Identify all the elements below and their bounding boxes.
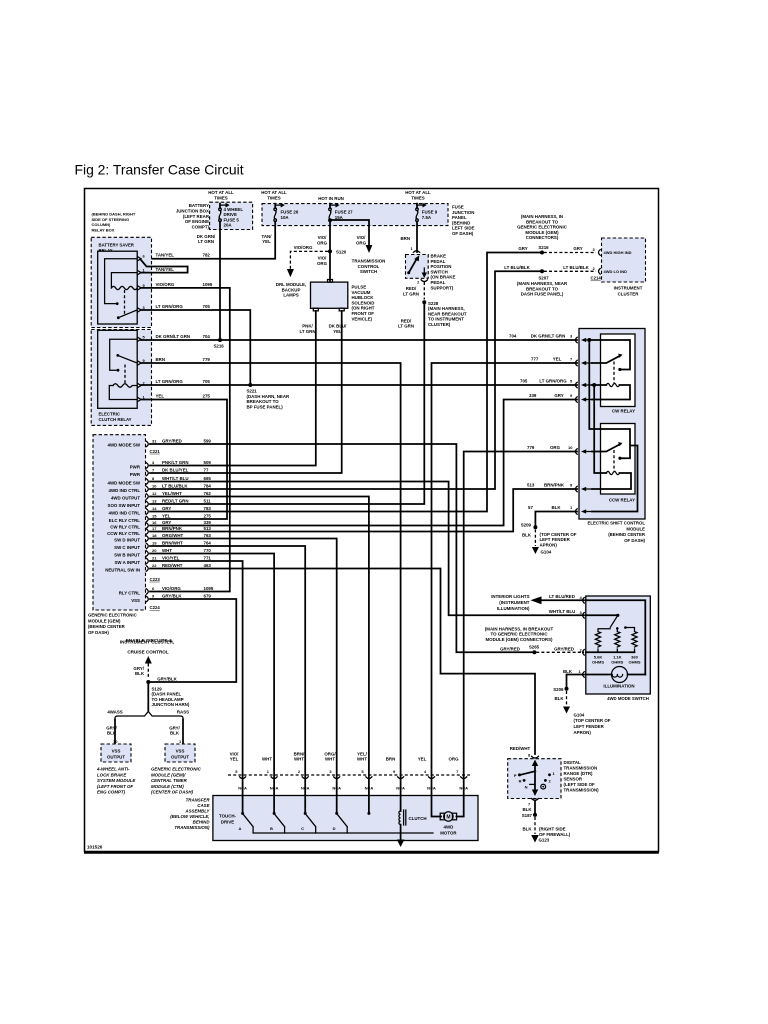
svg-text:C214: C214 bbox=[591, 276, 602, 281]
connector C221 bbox=[150, 449, 161, 454]
svg-text:VIO/YEL: VIO/YEL bbox=[162, 555, 180, 560]
svg-text:665: 665 bbox=[204, 476, 212, 481]
svg-text:SUPPORT): SUPPORT) bbox=[431, 285, 454, 290]
svg-text:DRL MODULE,: DRL MODULE, bbox=[276, 282, 306, 287]
svg-text:OF DASH): OF DASH) bbox=[452, 231, 474, 236]
svg-text:A: A bbox=[239, 826, 242, 831]
svg-text:(MAIN HARNESS, NEAR: (MAIN HARNESS, NEAR bbox=[517, 281, 568, 286]
svg-text:S187: S187 bbox=[522, 813, 533, 818]
svg-text:339: 339 bbox=[204, 520, 212, 525]
svg-text:OF DASH): OF DASH) bbox=[88, 630, 109, 635]
DTR internal selector bbox=[514, 760, 556, 797]
svg-text:ENG COMPT): ENG COMPT) bbox=[97, 790, 126, 795]
svg-text:GRY/: GRY/ bbox=[169, 725, 180, 730]
svg-text:1: 1 bbox=[267, 769, 270, 774]
svg-text:ENABLE CIRCUITS &: ENABLE CIRCUITS & bbox=[126, 638, 173, 643]
svg-text:(LEFT SIDE OF: (LEFT SIDE OF bbox=[564, 782, 596, 787]
electric clutch relay K2 bbox=[98, 330, 146, 408]
svg-text:NCA: NCA bbox=[270, 785, 279, 790]
connector C223 bbox=[150, 577, 161, 582]
GEM pin 13 wire RED/LT GRN 511 row bbox=[108, 498, 212, 508]
svg-text:6: 6 bbox=[152, 586, 155, 591]
svg-text:GRY/RED: GRY/RED bbox=[500, 646, 520, 651]
svg-text:4 WHEEL: 4 WHEEL bbox=[224, 207, 244, 212]
svg-text:MODULE (GEM): MODULE (GEM) bbox=[88, 618, 121, 623]
4WD mode switch box bbox=[583, 596, 651, 701]
svg-text:OF FIREWALL): OF FIREWALL) bbox=[539, 832, 571, 837]
svg-text:(INSTRUMENT: (INSTRUMENT bbox=[499, 600, 530, 605]
svg-text:(DASH PANEL: (DASH PANEL bbox=[152, 692, 182, 697]
svg-text:BATTERY: BATTERY bbox=[189, 203, 209, 208]
svg-text:(ON BRAKE: (ON BRAKE bbox=[431, 275, 456, 280]
svg-text:VIO/ORG: VIO/ORG bbox=[156, 282, 175, 287]
wire DK GRN/LT GRN 704 relay pin 5 through S216 to ESCM pin 3 bbox=[141, 334, 577, 349]
svg-text:BLK: BLK bbox=[551, 505, 561, 510]
svg-text:GRY/: GRY/ bbox=[106, 725, 117, 730]
svg-text:BRAKE: BRAKE bbox=[431, 254, 447, 259]
svg-text:HOT AT ALL: HOT AT ALL bbox=[208, 190, 234, 195]
svg-text:GRY/: GRY/ bbox=[133, 666, 144, 671]
svg-text:VIO/ORG: VIO/ORG bbox=[294, 245, 313, 250]
svg-text:S120: S120 bbox=[336, 249, 347, 254]
svg-text:CONNECTORS): CONNECTORS) bbox=[526, 235, 559, 240]
svg-text:S265: S265 bbox=[529, 645, 540, 650]
wire BRN 779 relay pin 9 to transfer case pin 9 bbox=[141, 357, 401, 796]
GEM pin 22 wire RED/WHT 463 to DTR sensor bbox=[105, 563, 535, 754]
svg-text:RASS: RASS bbox=[177, 710, 189, 715]
svg-text:SW A INPUT: SW A INPUT bbox=[114, 560, 140, 565]
wire LT GRN/ORG 705 relay pin 2 through S221 to ESCM pin 5 bbox=[141, 379, 577, 410]
YEL/WHT switch wire end (pin 5 spare) bbox=[367, 796, 370, 815]
wire GRY/BLK from S129 split to VSS outputs bbox=[107, 684, 189, 720]
svg-text:16: 16 bbox=[152, 520, 157, 525]
svg-text:PNK/LT GRN: PNK/LT GRN bbox=[162, 460, 189, 465]
svg-text:LEFT SIDE: LEFT SIDE bbox=[452, 226, 475, 231]
svg-text:4WASS: 4WASS bbox=[107, 710, 122, 715]
svg-text:VSS: VSS bbox=[131, 598, 140, 603]
svg-text:B: B bbox=[270, 826, 273, 831]
DTR sensor connector pin 8 bbox=[510, 746, 539, 758]
svg-text:C224: C224 bbox=[150, 605, 161, 610]
svg-text:RANGE (DTR): RANGE (DTR) bbox=[564, 771, 594, 776]
svg-text:101526: 101526 bbox=[87, 845, 103, 850]
svg-text:BLK: BLK bbox=[522, 826, 532, 831]
wire TAN/YEL 782 from fuse 26 to battery saver relay pin 6 bbox=[141, 222, 275, 259]
svg-text:15A: 15A bbox=[335, 215, 344, 220]
svg-text:705: 705 bbox=[520, 379, 528, 384]
svg-text:S206: S206 bbox=[553, 687, 564, 692]
svg-text:YEL: YEL bbox=[333, 329, 342, 334]
svg-text:TO INSTRUMENT: TO INSTRUMENT bbox=[428, 317, 464, 322]
svg-text:MODULE (CTM): MODULE (CTM) bbox=[151, 784, 184, 789]
svg-text:SOO SW INPUT: SOO SW INPUT bbox=[108, 503, 141, 508]
svg-text:762: 762 bbox=[204, 491, 212, 496]
svg-text:RED/: RED/ bbox=[401, 318, 412, 323]
svg-text:YEL/WHT: YEL/WHT bbox=[162, 491, 182, 496]
svg-text:(CENTER OF DASH): (CENTER OF DASH) bbox=[151, 790, 193, 795]
svg-text:CLUTCH: CLUTCH bbox=[409, 816, 427, 821]
svg-text:(MAIN HARNESS, IN BREAKOUT: (MAIN HARNESS, IN BREAKOUT bbox=[485, 626, 554, 631]
svg-text:RED/WHT: RED/WHT bbox=[510, 746, 531, 751]
svg-text:LT BLU/BLK: LT BLU/BLK bbox=[504, 265, 530, 270]
svg-text:APRON): APRON) bbox=[540, 542, 558, 547]
svg-text:TIMES: TIMES bbox=[411, 195, 424, 200]
svg-text:BLK: BLK bbox=[107, 731, 117, 736]
svg-text:R: R bbox=[519, 779, 522, 784]
svg-text:WHT: WHT bbox=[357, 757, 367, 762]
svg-text:DK GRN/LT GRN: DK GRN/LT GRN bbox=[531, 334, 566, 339]
interior lights note and arrow bbox=[491, 594, 530, 611]
svg-text:PANEL: PANEL bbox=[452, 215, 467, 220]
svg-text:463: 463 bbox=[204, 563, 212, 568]
svg-text:RED/: RED/ bbox=[406, 286, 417, 291]
svg-text:BATTERY SAVER: BATTERY SAVER bbox=[99, 242, 135, 247]
svg-text:511: 511 bbox=[204, 498, 212, 503]
svg-text:INSTRUMENT: INSTRUMENT bbox=[614, 286, 643, 291]
svg-text:339: 339 bbox=[529, 393, 537, 398]
svg-text:G104: G104 bbox=[541, 549, 552, 554]
svg-text:704: 704 bbox=[509, 334, 517, 339]
CW relay sub-box bbox=[601, 334, 636, 413]
svg-text:FUSE 27: FUSE 27 bbox=[335, 210, 353, 215]
svg-text:VSS: VSS bbox=[112, 749, 121, 754]
svg-text:FRONT OF: FRONT OF bbox=[352, 311, 375, 316]
svg-text:783: 783 bbox=[204, 506, 212, 511]
svg-text:VEHICLE): VEHICLE) bbox=[352, 316, 373, 321]
svg-text:ORG: ORG bbox=[448, 757, 459, 762]
svg-text:(BEHIND: (BEHIND bbox=[452, 220, 470, 225]
svg-text:705: 705 bbox=[203, 304, 211, 309]
svg-text:GRY: GRY bbox=[573, 246, 582, 251]
wire VIO/ORG 1095 relay pin 9 to GEM pin 6 bbox=[141, 282, 230, 592]
svg-text:(ON RIGHT: (ON RIGHT bbox=[352, 306, 375, 311]
svg-text:599: 599 bbox=[204, 438, 212, 443]
junction S207 (LT BLU/BLK to instrument cluster) bbox=[504, 265, 568, 297]
svg-text:7: 7 bbox=[528, 801, 531, 806]
svg-text:DK GRN/: DK GRN/ bbox=[197, 234, 216, 239]
switch internal: rotary wiper from pin 3 bbox=[586, 614, 620, 628]
svg-text:TIMES: TIMES bbox=[214, 195, 227, 200]
svg-text:2: 2 bbox=[417, 280, 420, 285]
svg-text:22: 22 bbox=[152, 563, 157, 568]
svg-text:NCA: NCA bbox=[427, 785, 436, 790]
svg-text:NEAR BREAKOUT: NEAR BREAKOUT bbox=[428, 311, 467, 316]
CCW relay sub-box bbox=[601, 424, 636, 503]
transfer case connector dashed line bbox=[228, 774, 470, 776]
dashed branch arrow up to cruise control from S129 bbox=[133, 656, 151, 679]
svg-text:1: 1 bbox=[179, 739, 182, 744]
svg-text:COLUMN): COLUMN) bbox=[92, 222, 112, 227]
svg-text:DK BLU/YEL: DK BLU/YEL bbox=[162, 467, 189, 472]
svg-text:275: 275 bbox=[204, 513, 212, 518]
svg-text:(BEHIND CENTER: (BEHIND CENTER bbox=[608, 532, 646, 537]
dashed wire LT BLU/BLK to cluster pin 2 bbox=[544, 265, 596, 272]
HOT IN RUN label (fuse 27) bbox=[318, 196, 344, 201]
svg-text:SW C INPUT: SW C INPUT bbox=[114, 545, 140, 550]
svg-text:LT GRN: LT GRN bbox=[198, 239, 214, 244]
svg-text:TIMES: TIMES bbox=[267, 195, 280, 200]
svg-text:CCW RLY CTRL: CCW RLY CTRL bbox=[107, 531, 140, 536]
svg-text:CONTROL: CONTROL bbox=[358, 264, 380, 269]
svg-text:2: 2 bbox=[580, 647, 583, 652]
transfer case assembly label bbox=[170, 798, 210, 831]
svg-text:10: 10 bbox=[152, 483, 157, 488]
svg-text:ASSEMBLY: ASSEMBLY bbox=[184, 809, 210, 814]
svg-text:(BEHIND DASH, RIGHT: (BEHIND DASH, RIGHT bbox=[92, 212, 136, 217]
GEM pin connector arcs bbox=[146, 441, 148, 602]
svg-text:YEL: YEL bbox=[553, 357, 562, 362]
svg-text:WHT: WHT bbox=[162, 548, 172, 553]
svg-text:OHMS: OHMS bbox=[611, 660, 623, 665]
svg-text:SOLENOID: SOLENOID bbox=[352, 300, 375, 305]
svg-text:782: 782 bbox=[203, 253, 211, 258]
svg-text:TAN/: TAN/ bbox=[262, 234, 273, 239]
fuse 5 (4 wheel drive fuse, 20A) bbox=[219, 203, 244, 228]
svg-text:705: 705 bbox=[203, 379, 211, 384]
svg-text:3: 3 bbox=[570, 334, 573, 339]
svg-text:S228: S228 bbox=[428, 301, 439, 306]
svg-text:764: 764 bbox=[204, 540, 212, 545]
svg-text:YEL: YEL bbox=[162, 513, 171, 518]
svg-text:1: 1 bbox=[570, 505, 573, 510]
connector C224 bbox=[150, 605, 161, 610]
svg-text:57: 57 bbox=[528, 505, 533, 510]
wire GRY/BLK 10 to ABS VSS output bbox=[106, 720, 118, 745]
svg-text:4WD MODE SWITCH: 4WD MODE SWITCH bbox=[607, 696, 649, 701]
svg-text:ILLUMINATION: ILLUMINATION bbox=[603, 684, 634, 689]
svg-text:LOCK BRAKE: LOCK BRAKE bbox=[97, 772, 127, 777]
svg-text:9: 9 bbox=[152, 593, 155, 598]
svg-text:4-WHEEL ANTI-: 4-WHEEL ANTI- bbox=[96, 767, 130, 772]
svg-text:VIO/: VIO/ bbox=[357, 235, 367, 240]
svg-text:BRN: BRN bbox=[400, 236, 410, 241]
svg-text:LT BLU/BLK: LT BLU/BLK bbox=[162, 483, 188, 488]
svg-text:MODULE (GEM): MODULE (GEM) bbox=[525, 230, 559, 235]
svg-text:OUTPUT: OUTPUT bbox=[171, 754, 189, 759]
svg-text:SW B INPUT: SW B INPUT bbox=[114, 552, 140, 557]
svg-text:31: 31 bbox=[152, 438, 157, 443]
svg-text:DK BLU/: DK BLU/ bbox=[329, 324, 348, 329]
svg-text:D: D bbox=[333, 826, 336, 831]
svg-text:679: 679 bbox=[204, 593, 212, 598]
svg-text:LT BLU/RED: LT BLU/RED bbox=[549, 594, 575, 599]
svg-text:779: 779 bbox=[203, 357, 211, 362]
svg-text:4WD MODE SW: 4WD MODE SW bbox=[108, 480, 141, 485]
svg-text:GENERIC ELECTRONIC: GENERIC ELECTRONIC bbox=[517, 225, 568, 230]
svg-text:360: 360 bbox=[631, 654, 638, 659]
svg-text:BRN: BRN bbox=[386, 757, 396, 762]
wire RED/LT GRN brake switch to S228 and GEM pin 13 bbox=[150, 280, 467, 504]
svg-text:784: 784 bbox=[204, 483, 212, 488]
svg-text:DASH FUSE PANEL): DASH FUSE PANEL) bbox=[521, 292, 564, 297]
electric clutch relay dashed enclosure bbox=[91, 330, 151, 426]
svg-text:513: 513 bbox=[204, 526, 212, 531]
ABS module label bbox=[96, 767, 136, 795]
svg-text:9: 9 bbox=[393, 769, 396, 774]
svg-text:S209: S209 bbox=[521, 522, 532, 527]
svg-text:CLUTCH RELAY: CLUTCH RELAY bbox=[99, 417, 132, 422]
instrument cluster box bbox=[591, 238, 646, 296]
svg-text:JUNCTION HARN): JUNCTION HARN) bbox=[152, 702, 190, 707]
GEM pin 7 wire DK BLU/YEL 77 row bbox=[130, 467, 209, 477]
fuse junction panel strip (dashed enclosure fuses 26/27/9) bbox=[262, 204, 475, 236]
svg-text:LT GRN/ORG: LT GRN/ORG bbox=[539, 379, 567, 384]
svg-text:9: 9 bbox=[570, 483, 573, 488]
GEM pin 16 wire GRY 339 to ESCM pin 9 bbox=[110, 400, 577, 530]
svg-text:C221: C221 bbox=[150, 449, 161, 454]
svg-text:(MAIN HARNESS, IN: (MAIN HARNESS, IN bbox=[521, 214, 563, 219]
svg-text:PULSE: PULSE bbox=[352, 285, 367, 290]
svg-text:10: 10 bbox=[113, 739, 118, 744]
svg-text:771: 771 bbox=[204, 555, 212, 560]
wire BLK 7 DTR to S187 ground G123 bbox=[522, 799, 571, 843]
HOT AT ALL TIMES label (fuse 5) bbox=[208, 190, 234, 200]
svg-text:SWITCH: SWITCH bbox=[431, 269, 448, 274]
GEM pin 17 wire BRN/PNK 513 to ESCM pin 9 (CCW) bbox=[107, 489, 577, 536]
svg-text:YEL: YEL bbox=[262, 239, 271, 244]
CW relay internals bbox=[587, 338, 630, 400]
wire LT BLU/RED 4 from 4WD mode switch pin 4 bbox=[531, 594, 585, 604]
svg-text:MODULE (GEM)/: MODULE (GEM)/ bbox=[151, 772, 186, 777]
svg-text:S216: S216 bbox=[538, 245, 549, 250]
svg-text:VACUUM: VACUUM bbox=[352, 290, 371, 295]
svg-text:13: 13 bbox=[152, 498, 157, 503]
wire BLK 57 ESCM pin 1 to S209 ground G104 bbox=[521, 512, 577, 555]
svg-text:TRANSMISSION: TRANSMISSION bbox=[352, 259, 386, 264]
svg-text:5: 5 bbox=[361, 769, 364, 774]
svg-text:BP FUSE PANEL): BP FUSE PANEL) bbox=[247, 405, 284, 410]
svg-text:LT GRN/ORG: LT GRN/ORG bbox=[156, 304, 184, 309]
GEM pin 8 wire WHT/LT BLU 665 to 4WD mode switch pin 3 bbox=[108, 476, 584, 615]
svg-text:5: 5 bbox=[235, 769, 238, 774]
GEM/CTM module label bbox=[151, 767, 202, 795]
svg-text:(TOP CENTER OF: (TOP CENTER OF bbox=[540, 532, 577, 537]
svg-text:GRY: GRY bbox=[162, 520, 171, 525]
svg-text:BLK: BLK bbox=[522, 532, 532, 537]
svg-text:GRY: GRY bbox=[162, 506, 171, 511]
svg-text:TRANSMISSION): TRANSMISSION) bbox=[174, 825, 210, 830]
VSS output box (GEM/CTM) bbox=[165, 744, 195, 762]
svg-text:4: 4 bbox=[424, 769, 427, 774]
svg-text:WHT/LT BLU: WHT/LT BLU bbox=[549, 609, 576, 614]
svg-text:GRY/BLK: GRY/BLK bbox=[162, 593, 182, 598]
GEM pin 9 wire GRY/BLK 679 to S129 bbox=[131, 593, 236, 682]
svg-text:(DASH HARN, NEAR: (DASH HARN, NEAR bbox=[247, 394, 291, 399]
diagram border frame bbox=[85, 189, 659, 852]
svg-text:APRON): APRON) bbox=[574, 730, 592, 735]
svg-text:ORG/: ORG/ bbox=[324, 751, 336, 756]
svg-text:C: C bbox=[301, 826, 304, 831]
svg-text:BREAKOUT TO: BREAKOUT TO bbox=[247, 399, 280, 404]
svg-text:513: 513 bbox=[527, 483, 535, 488]
overprinted note: enable circuits / instrument cluster bbox=[120, 638, 174, 655]
svg-text:509: 509 bbox=[204, 460, 212, 465]
svg-text:HOT IN RUN: HOT IN RUN bbox=[318, 196, 344, 201]
svg-text:779: 779 bbox=[527, 445, 535, 450]
svg-text:BRN/WHT: BRN/WHT bbox=[162, 540, 183, 545]
svg-text:CLUSTER): CLUSTER) bbox=[428, 322, 451, 327]
svg-text:77: 77 bbox=[204, 467, 209, 472]
svg-text:VIO/: VIO/ bbox=[230, 751, 240, 756]
svg-text:PEDAL: PEDAL bbox=[431, 259, 446, 264]
svg-text:10: 10 bbox=[568, 445, 573, 450]
svg-text:LT BLU/BLK: LT BLU/BLK bbox=[563, 265, 589, 270]
ESCM pin labels bbox=[509, 334, 573, 511]
svg-text:GRY: GRY bbox=[554, 393, 563, 398]
svg-text:3: 3 bbox=[329, 769, 332, 774]
svg-text:HOT AT ALL: HOT AT ALL bbox=[261, 190, 287, 195]
svg-text:TOUCH-: TOUCH- bbox=[219, 814, 237, 819]
GEM pin 15 wire YEL 275 row bbox=[109, 513, 212, 523]
svg-text:3: 3 bbox=[580, 610, 583, 615]
svg-text:SIDE OF STEERING: SIDE OF STEERING bbox=[92, 217, 130, 222]
svg-text:WHT: WHT bbox=[325, 757, 335, 762]
svg-text:1.1K: 1.1K bbox=[613, 654, 622, 659]
svg-text:HUBLOCK: HUBLOCK bbox=[352, 295, 375, 300]
wire ORG 779 transfer case pin 7 to ESCM pin 10 bbox=[464, 452, 577, 796]
main harness GEM breakout note (S265) bbox=[485, 626, 554, 642]
svg-text:SWITCH: SWITCH bbox=[360, 269, 377, 274]
svg-text:(LEFT REAR: (LEFT REAR bbox=[183, 214, 210, 219]
junction S129 bbox=[146, 676, 190, 707]
svg-text:4: 4 bbox=[580, 595, 583, 600]
touch drive switch B bbox=[270, 796, 285, 834]
svg-text:BLK: BLK bbox=[554, 696, 564, 701]
svg-text:4WD LO IND: 4WD LO IND bbox=[604, 269, 628, 274]
wire GRY/BLK 1 to GEM/CTM VSS output bbox=[169, 720, 183, 745]
svg-text:LEFT FENDER: LEFT FENDER bbox=[574, 724, 605, 729]
wire YEL 275 relay pin 1 to GEM pin 15 bbox=[141, 394, 227, 520]
CCW relay internals bbox=[589, 340, 637, 512]
svg-text:3: 3 bbox=[152, 460, 155, 465]
svg-text:TRANSFER: TRANSFER bbox=[186, 798, 211, 803]
svg-text:NCA: NCA bbox=[459, 785, 468, 790]
svg-text:WHT: WHT bbox=[294, 757, 304, 762]
svg-text:BLK: BLK bbox=[522, 807, 532, 812]
svg-text:DRIVE: DRIVE bbox=[224, 212, 237, 217]
wire YEL 777 transfer case pin 4 to ESCM pin 7 bbox=[432, 363, 578, 796]
svg-text:POSITION: POSITION bbox=[431, 264, 452, 269]
svg-text:YEL: YEL bbox=[156, 394, 165, 399]
svg-text:Fig 2: Transfer Case Circuit: Fig 2: Transfer Case Circuit bbox=[75, 162, 244, 178]
svg-text:MODULE (GEM) CONNECTORS): MODULE (GEM) CONNECTORS) bbox=[486, 637, 554, 642]
svg-text:7: 7 bbox=[456, 769, 459, 774]
GEM pin 6 wire VIO/ORG 1095 row bbox=[119, 586, 214, 596]
svg-text:BRN/PNK: BRN/PNK bbox=[544, 483, 565, 488]
svg-text:763: 763 bbox=[204, 533, 212, 538]
fuse 26 (10A) bbox=[274, 203, 299, 222]
svg-text:GENERIC ELECTRONIC: GENERIC ELECTRONIC bbox=[151, 767, 202, 772]
battery saver relay K1 bbox=[98, 251, 146, 324]
GEM pin 10 wire LT BLU/BLK 784 to S207 bbox=[109, 271, 541, 493]
svg-text:4WD MODE SW: 4WD MODE SW bbox=[108, 443, 141, 448]
svg-text:YEL: YEL bbox=[418, 757, 427, 762]
switch internal: illumination lamp bbox=[586, 667, 646, 689]
GEM pin 3 wire PNK/LT GRN 509 row bbox=[130, 460, 212, 470]
transfer case assembly box bbox=[213, 796, 478, 841]
svg-text:OF ENGINE: OF ENGINE bbox=[185, 219, 209, 224]
touch drive switch common bus bbox=[253, 832, 433, 834]
svg-text:OHMS: OHMS bbox=[629, 660, 641, 665]
svg-text:NCA: NCA bbox=[365, 785, 374, 790]
svg-text:704: 704 bbox=[203, 334, 211, 339]
switch internal: three range resistors 5.6K/1.1K/360 bbox=[586, 626, 641, 664]
svg-text:7: 7 bbox=[570, 357, 573, 362]
svg-text:INTERIOR LIGHTS: INTERIOR LIGHTS bbox=[491, 594, 529, 599]
svg-text:GRY/RED: GRY/RED bbox=[162, 438, 182, 443]
electric shift control module (ESCM) box bbox=[579, 329, 645, 520]
svg-text:FUSE 5: FUSE 5 bbox=[224, 217, 240, 222]
